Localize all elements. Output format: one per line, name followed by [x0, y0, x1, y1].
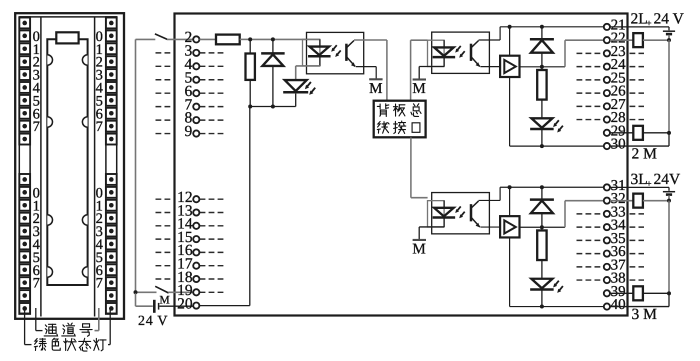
- left status-LED cell bank2 #8: [19, 277, 30, 288]
- optocoupler U-B LED sub-box: [428, 201, 445, 227]
- dashed stub inside terminal 13: [200, 212, 226, 214]
- dashed stub inside terminal 36: [577, 253, 603, 255]
- module front-view housing: [15, 13, 124, 319]
- ground bar M (opto A): [413, 78, 426, 80]
- dashed stub outside terminal 38: [630, 279, 645, 281]
- svg-text:+: +: [647, 18, 652, 28]
- terminal 21: [604, 24, 610, 30]
- node driver supply: [508, 185, 512, 189]
- output sense resistor: [537, 70, 546, 100]
- wire status LED to return rail: [541, 130, 543, 146]
- body notch right: [82, 215, 87, 225]
- output wire riser to terminal: [564, 201, 566, 228]
- svg-text:3 M: 3 M: [632, 306, 658, 323]
- left status-LED cell bank2 #9: [19, 290, 30, 301]
- terminal 2: [193, 36, 199, 42]
- svg-text:7: 7: [96, 119, 103, 135]
- left status-LED cell bank1 #4: [19, 69, 30, 80]
- driver return wire: [509, 77, 511, 146]
- terminal 16: [193, 249, 199, 255]
- right status-LED cell bank1 #6: [106, 95, 117, 106]
- terminal 8: [193, 117, 199, 123]
- left status-LED cell bank2 #1: [19, 187, 30, 198]
- svg-text:7: 7: [96, 276, 103, 292]
- dashed stub outside terminal 9: [156, 133, 174, 135]
- terminal 35: [604, 237, 610, 243]
- terminal 30: [604, 143, 610, 149]
- optocoupler U-A LED feed: [443, 40, 445, 47]
- label 绿色状态灯 (green status LED): [34, 339, 46, 351]
- svg-text:9: 9: [184, 123, 192, 140]
- dashed stub inside terminal 15: [200, 238, 226, 240]
- right status-LED cell bank1 #4: [106, 69, 117, 80]
- optocoupler U-A box: [432, 32, 490, 73]
- module center body: [47, 39, 87, 285]
- terminal 24: [604, 64, 610, 70]
- left 24V supply rail: [135, 39, 137, 293]
- clamp diode feed: [541, 187, 543, 199]
- wire supply terminal 31 to battery: [610, 186, 669, 188]
- right status-LED cell bank1 #3: [106, 56, 117, 67]
- node output junction: [540, 225, 544, 229]
- dashed stub outside terminal 33: [630, 213, 645, 215]
- dashed stub outside terminal 35: [630, 239, 645, 241]
- terminal 34: [604, 224, 610, 230]
- output wire riser to terminal: [564, 40, 566, 67]
- svg-text:24 V: 24 V: [654, 10, 685, 27]
- wire switch to terminal 2: [167, 38, 193, 40]
- ground bar M (input opto): [369, 78, 382, 80]
- svg-text:30: 30: [611, 137, 626, 153]
- collector wire to supply rail: [479, 199, 501, 201]
- dashed stub outside terminal 4: [156, 65, 174, 67]
- dashed stub outside terminal 16: [156, 251, 174, 253]
- wire rail down to battery: [135, 293, 137, 306]
- left status-LED cell bank2 #5: [19, 239, 30, 250]
- dashed stub outside terminal 3: [156, 52, 174, 54]
- wire battery to terminal 20: [159, 305, 193, 307]
- node diode bottom: [271, 105, 275, 109]
- supply rail 2L (group A): [500, 26, 604, 28]
- return rail M (group A): [510, 145, 604, 147]
- svg-text:20: 20: [177, 295, 193, 312]
- dashed stub inside terminal 8: [200, 119, 226, 121]
- wire M terminal 40 to M rail: [610, 306, 669, 308]
- wire diode to output node: [541, 53, 543, 70]
- right status-LED cell bank1 #9: [106, 134, 117, 145]
- collector wire to supply rail: [479, 39, 501, 41]
- node M rail / load 29: [667, 131, 671, 135]
- node clamp diode top: [540, 185, 544, 189]
- optocoupler U-B LED feed: [443, 201, 445, 208]
- load on output terminal 39: [610, 292, 633, 294]
- driver triangle: [504, 220, 516, 233]
- load on output terminal 22: [610, 39, 633, 41]
- ground bar M (opto B): [413, 239, 426, 241]
- dashed stub outside terminal 26: [630, 92, 645, 94]
- battery 24V long plate: [153, 300, 156, 313]
- clamp diode (group B): [530, 198, 554, 201]
- svg-text:M: M: [159, 295, 169, 307]
- emitter wire to M: [356, 66, 376, 68]
- node input resistor top: [248, 37, 252, 41]
- left LED column outline: [19, 17, 30, 313]
- dashed stub outside terminal 18: [156, 278, 174, 280]
- terminal 3: [193, 50, 199, 56]
- emitter wire to driver: [480, 226, 500, 228]
- right status-LED cell bank2 #7: [106, 264, 117, 275]
- optocoupler U-B LED cathode wire: [443, 218, 445, 227]
- left status-LED cell bank1 #3: [19, 56, 30, 67]
- driver output wire: [520, 226, 542, 228]
- left status-LED cell bank2 #7: [19, 264, 30, 275]
- body notch left: [47, 215, 52, 225]
- dashed stub inside terminal 16: [200, 251, 226, 253]
- main module boundary box: [175, 14, 628, 316]
- battery 24V short plate (group): [666, 33, 672, 36]
- right status-LED cell bank1 #2: [106, 43, 117, 54]
- right status-LED cell bank1 #7: [106, 108, 117, 119]
- dashed stub outside terminal 15: [156, 238, 174, 240]
- body notch left: [47, 267, 52, 277]
- wire 24V rail to switch (input): [136, 38, 156, 40]
- green status LED anode wire: [295, 66, 297, 80]
- label 线接口: [377, 121, 389, 133]
- node M rail / load 32: [667, 199, 671, 203]
- left status-LED cell bank1 #0: [19, 18, 30, 29]
- left status-LED cell bank1 #8: [19, 121, 30, 132]
- wire shunt resistor to bottom rail: [249, 80, 251, 107]
- dashed stub outside terminal 23: [630, 52, 645, 54]
- svg-text:3L: 3L: [631, 171, 648, 188]
- right status-LED cell bank1 #8: [106, 121, 117, 132]
- terminal 23: [604, 50, 610, 56]
- terminal 29: [604, 130, 610, 136]
- module label plate: [56, 32, 78, 43]
- node clamp diode top: [540, 25, 544, 29]
- terminal 40: [604, 303, 610, 309]
- optocoupler U-in box: [307, 32, 364, 73]
- right status-LED cell bank2 #9: [106, 290, 117, 301]
- dashed stub inside terminal 27: [577, 105, 603, 107]
- terminal 15: [193, 236, 199, 242]
- body notch right: [82, 55, 87, 65]
- load on output terminal 29: [610, 132, 633, 134]
- terminal 5: [193, 77, 199, 83]
- dashed stub inside terminal 23: [577, 52, 603, 54]
- dashed stub inside terminal 37: [577, 266, 603, 268]
- supply rail 2L (group B): [500, 186, 604, 188]
- body notch left: [47, 117, 52, 127]
- wire supply terminal 21 to battery: [610, 26, 669, 28]
- left status-LED cell bank2 #2: [19, 200, 30, 211]
- terminal 9: [193, 130, 199, 136]
- wire node to protection diode: [250, 38, 273, 40]
- left status-LED cell bank2 #3: [19, 213, 30, 224]
- right status-LED cell bank2 #2: [106, 200, 117, 211]
- wire terminal 20 to input common riser: [200, 305, 250, 307]
- left status-LED cell bank1 #1: [19, 30, 30, 41]
- terminal 26: [604, 90, 610, 96]
- optocoupler U-A LED sub-box: [428, 40, 445, 66]
- wire rail to switch (terminal 19): [136, 291, 157, 293]
- dashed stub outside terminal 34: [630, 226, 645, 228]
- wire output node right: [542, 226, 565, 228]
- dashed stub inside terminal 26: [577, 92, 603, 94]
- left status-LED cell bank1 #6: [19, 95, 30, 106]
- optocoupler U-B LED: [434, 208, 454, 217]
- node status LED return: [540, 144, 544, 148]
- optocoupler U-in LED: [310, 47, 330, 56]
- driver stage box: [500, 216, 519, 237]
- wire protection diode to bottom rail: [272, 66, 274, 107]
- dashed stub outside terminal 14: [156, 225, 174, 227]
- optocoupler LED cathode wire: [319, 57, 321, 66]
- svg-text:24V: 24V: [654, 171, 682, 188]
- driver triangle: [504, 60, 516, 73]
- driver output wire: [520, 66, 542, 68]
- dashed stub outside terminal 12: [156, 198, 174, 200]
- optocoupler LED feed: [319, 39, 321, 46]
- svg-text:M: M: [369, 81, 382, 97]
- terminal 25: [604, 77, 610, 83]
- right status-LED cell bank2 #5: [106, 239, 117, 250]
- external M rail (group): [668, 40, 670, 133]
- label 背板总: [377, 104, 388, 117]
- wire battery minus to M rail: [668, 35, 670, 40]
- dashed stub inside terminal 3: [200, 52, 226, 54]
- dashed stub inside terminal 38: [577, 279, 603, 281]
- terminal 13: [193, 209, 199, 215]
- left status-LED cell bank1 #5: [19, 82, 30, 93]
- housing inner top line: [20, 16, 118, 18]
- input protection diode: [272, 39, 274, 53]
- driver stage box: [500, 56, 519, 77]
- input shunt resistor: [246, 54, 255, 80]
- wire green LED to bottom rail: [295, 94, 297, 107]
- output status LED (group B): [531, 279, 552, 289]
- body notch right: [82, 267, 87, 277]
- dashed stub outside terminal 27: [630, 105, 645, 107]
- terminal 6: [193, 90, 199, 96]
- dashed stub outside terminal 17: [156, 265, 174, 267]
- node status LED return: [540, 305, 544, 309]
- terminal 27: [604, 103, 610, 109]
- terminal 33: [604, 211, 610, 217]
- dashed stub inside terminal 34: [577, 226, 603, 228]
- optocoupler U-A phototransistor: [470, 44, 473, 61]
- right status-LED cell bank1 #1: [106, 30, 117, 41]
- svg-text:7: 7: [33, 119, 40, 135]
- right status-LED cell bank1 #0: [106, 18, 117, 29]
- terminal 39: [604, 290, 610, 296]
- svg-text:40: 40: [611, 297, 626, 313]
- left status-LED cell bank2 #4: [19, 226, 30, 237]
- optocoupler U-A LED: [434, 47, 454, 56]
- input series resistor: [216, 35, 240, 45]
- svg-text:24 V: 24 V: [138, 314, 168, 329]
- terminal 12: [193, 196, 199, 202]
- dashed stub inside terminal 24: [577, 66, 603, 68]
- body notch right: [82, 117, 87, 127]
- node protection diode top: [271, 37, 275, 41]
- svg-text:M: M: [412, 241, 425, 257]
- driver supply wire: [509, 187, 511, 216]
- terminal 17: [193, 263, 199, 269]
- dashed stub inside terminal 12: [200, 198, 226, 200]
- clamp diode (group A): [530, 38, 554, 41]
- terminal 19: [193, 289, 199, 295]
- channel-number leader bracket: [35, 308, 37, 331]
- dashed stub outside terminal 6: [156, 92, 174, 94]
- node driver supply: [508, 25, 512, 29]
- wire diode node to optocoupler: [273, 38, 320, 40]
- backplane bus interface box: [374, 101, 426, 138]
- right LED column outline: [106, 17, 117, 313]
- terminal 7: [193, 104, 199, 110]
- input circuit bottom rail: [250, 106, 296, 108]
- terminal 22: [604, 37, 610, 43]
- battery 24V short plate (group): [666, 193, 672, 196]
- external M rail (group): [668, 201, 670, 294]
- optocoupler LED sub-box: [303, 39, 320, 66]
- dashed stub inside terminal 5: [200, 79, 226, 81]
- driver return wire: [509, 237, 511, 306]
- output status LED (group A): [531, 118, 552, 128]
- wire terminal 2 to series resistor: [200, 38, 217, 40]
- collector wire to backplane: [354, 39, 387, 41]
- dashed stub inside terminal 28: [577, 119, 603, 121]
- dashed stub inside terminal 17: [200, 265, 226, 267]
- left status-LED cell bank2 #0: [19, 174, 30, 185]
- dashed stub outside terminal 25: [630, 79, 645, 81]
- dashed stub inside terminal 33: [577, 213, 603, 215]
- wire to output terminal: [565, 39, 603, 41]
- right status-LED cell bank2 #4: [106, 226, 117, 237]
- optocoupler U-A LED cathode wire: [443, 58, 445, 67]
- battery 24V short plate: [158, 303, 160, 310]
- switch contact (channel 0 input): [155, 34, 167, 40]
- dashed stub outside terminal 36: [630, 253, 645, 255]
- terminal 37: [604, 264, 610, 270]
- wire battery minus to M rail: [668, 195, 670, 200]
- battery 24V long plate (group): [663, 30, 675, 32]
- terminal 31: [604, 184, 610, 190]
- wire diode to output node: [541, 213, 543, 230]
- terminal 32: [604, 198, 610, 204]
- battery 24V long plate (group): [663, 191, 675, 193]
- left terminal strip rail: [40, 17, 42, 317]
- output sense resistor: [537, 230, 546, 260]
- backplane bus wire (output A): [410, 40, 412, 100]
- dashed stub inside terminal 4: [200, 65, 226, 67]
- terminal 20: [193, 303, 199, 309]
- svg-text:7: 7: [33, 276, 40, 292]
- green status LED: [285, 80, 307, 91]
- wire to output terminal: [565, 200, 603, 202]
- left status-LED cell bank1 #7: [19, 108, 30, 119]
- optocoupler U-in phototransistor: [345, 44, 348, 61]
- wire resistor to status LED: [541, 100, 543, 119]
- optocoupler U-B box: [432, 193, 490, 234]
- left status-LED cell bank1 #2: [19, 43, 30, 54]
- svg-text:M: M: [412, 81, 425, 97]
- svg-text:2L: 2L: [631, 10, 648, 27]
- terminal 36: [604, 251, 610, 257]
- dashed stub inside terminal 7: [200, 106, 226, 108]
- dashed stub inside terminal 18: [200, 278, 226, 280]
- right terminal strip rail: [94, 17, 96, 317]
- dashed stub outside terminal 7: [156, 106, 174, 108]
- dashed stub outside terminal 13: [156, 212, 174, 214]
- terminal 38: [604, 277, 610, 283]
- dashed stub inside terminal 35: [577, 239, 603, 241]
- node M rail / load 39: [667, 291, 671, 295]
- wire node down to shunt resistor: [249, 39, 251, 53]
- backplane bus wire (output B): [410, 137, 412, 197]
- dashed stub inside terminal 25: [577, 79, 603, 81]
- dashed stub outside terminal 5: [156, 79, 174, 81]
- dashed stub outside terminal 37: [630, 266, 645, 268]
- wire resistor to node: [240, 38, 251, 40]
- emitter wire to driver: [480, 66, 500, 68]
- switch contact (terminal 19): [155, 286, 168, 293]
- wire output node right: [542, 66, 565, 68]
- wire resistor to status LED: [541, 260, 543, 279]
- green-status-LED leader bracket: [24, 308, 26, 345]
- label 通道号 (channel number): [44, 324, 57, 336]
- wire status LED to return rail: [541, 290, 543, 306]
- right status-LED cell bank2 #8: [106, 277, 117, 288]
- dashed stub outside terminal 28: [630, 119, 645, 121]
- dashed stub outside terminal 8: [156, 119, 174, 121]
- svg-text:+: +: [647, 178, 652, 188]
- input common riser: [249, 107, 251, 306]
- dashed stub inside terminal 19: [200, 291, 226, 293]
- optocoupler U-B phototransistor: [470, 204, 473, 221]
- dashed stub outside terminal 24: [630, 66, 645, 68]
- wire M terminal 30 to M rail: [610, 145, 669, 147]
- junction rail/terminal-19 wire: [134, 290, 138, 294]
- body notch left: [47, 55, 52, 65]
- node M rail / load 22: [667, 38, 671, 42]
- dashed stub inside terminal 9: [200, 133, 226, 135]
- dashed stub inside terminal 6: [200, 92, 226, 94]
- terminal 28: [604, 116, 610, 122]
- load on output terminal 32: [610, 200, 633, 202]
- wire switch to terminal 19: [168, 291, 193, 293]
- right status-LED cell bank2 #10: [106, 303, 117, 314]
- left status-LED cell bank1 #9: [19, 134, 30, 145]
- left status-LED cell bank2 #6: [19, 251, 30, 262]
- node shunt resistor bottom: [248, 105, 252, 109]
- clamp diode feed: [541, 27, 543, 39]
- terminal 14: [193, 223, 199, 229]
- node output junction: [540, 65, 544, 69]
- right status-LED cell bank2 #1: [106, 187, 117, 198]
- driver supply wire: [509, 27, 511, 56]
- right status-LED cell bank1 #5: [106, 82, 117, 93]
- return rail M (group B): [510, 306, 604, 308]
- terminal 18: [193, 276, 199, 282]
- right status-LED cell bank2 #3: [106, 213, 117, 224]
- right status-LED cell bank2 #6: [106, 251, 117, 262]
- svg-text:2 M: 2 M: [632, 145, 658, 162]
- right status-LED cell bank2 #0: [106, 174, 117, 185]
- dashed stub inside terminal 14: [200, 225, 226, 227]
- terminal 4: [193, 63, 199, 69]
- left status-LED cell bank2 #10: [19, 303, 30, 314]
